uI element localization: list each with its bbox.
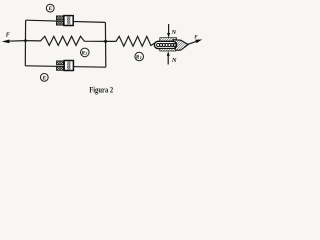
label E (bottom, circled) [40, 74, 48, 82]
normal force arrow N (top) [167, 24, 170, 38]
wire: left vertical of loop [24, 20, 26, 66]
node: right junction dot [104, 40, 107, 43]
friction element bottom (E): pads + cylinder [57, 61, 74, 71]
svg-text:1: 1 [140, 56, 142, 60]
svg-text:Figura 2: Figura 2 [89, 86, 113, 95]
label E (top, circled) [46, 4, 54, 12]
friction block: bottom strip [160, 49, 176, 51]
friction element top (E): pads + cylinder [56, 16, 73, 26]
friction block: roller capsule [154, 41, 176, 48]
friction block: hatched wedge body [173, 40, 188, 51]
normal force arrow N (bottom) [167, 51, 170, 64]
friction block: top pressure plate (hatched) [160, 38, 177, 42]
svg-text:N: N [171, 29, 177, 36]
svg-text:E: E [42, 76, 47, 82]
wire: top rail of loop [26, 20, 106, 22]
spring R1 (right branch) [106, 36, 155, 46]
svg-text:2: 2 [84, 52, 87, 56]
wire: right vertical of loop [104, 22, 106, 67]
node: left junction dot [24, 39, 27, 42]
spring R2 (middle branch) [26, 36, 106, 45]
label R2 (circled) [81, 48, 90, 57]
svg-text:F: F [194, 35, 198, 41]
label R1 (circled) [135, 52, 144, 61]
wire: bottom rail of loop [25, 66, 106, 67]
force arrow F (right) [188, 39, 203, 44]
svg-text:N: N [171, 57, 177, 64]
svg-text:E: E [48, 6, 53, 12]
force arrow F (left) [2, 40, 26, 44]
